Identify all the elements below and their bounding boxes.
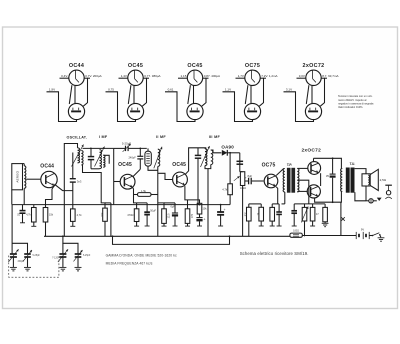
thermistor top wire: [304, 204, 306, 208]
ground battery: [378, 238, 385, 241]
svg-text:OSCILLAT.: OSCILLAT.: [67, 135, 88, 139]
svg-text:5-25pF: 5-25pF: [33, 255, 41, 257]
oscillator top wire to I MF: [83, 147, 114, 149]
svg-text:OC45: OC45: [128, 63, 143, 69]
oscillator coil L3: [81, 151, 83, 166]
resistor R-1k OC75 emitter: [270, 204, 275, 221]
R bias top wire: [33, 205, 35, 208]
svg-text:12,5: 12,5: [168, 213, 171, 218]
volume pot wiper arrow: [234, 176, 240, 181]
svg-text:OC75: OC75: [245, 63, 260, 69]
transistor OC75 label: [262, 162, 276, 168]
oscillator tuning arrow: [72, 145, 84, 167]
I MF secondary coil: [103, 155, 105, 167]
volume pot top wire: [240, 171, 243, 173]
unit 1 collector-side wire: [83, 78, 87, 106]
I MF bottom wire: [91, 168, 100, 170]
volume pot label: [240, 187, 246, 190]
R-4.7k bottom tick: [70, 221, 75, 226]
II MF primary bottom wire: [148, 166, 158, 170]
jack chassis triangle: [377, 198, 382, 201]
unit 1 left voltage label: [61, 74, 68, 78]
variable capacitor CV1: [8, 249, 18, 262]
R-1.5k right wire: [151, 194, 158, 196]
svg-text:0,87. 400µA: 0,87. 400µA: [204, 74, 220, 78]
R-out2 ground: [322, 222, 329, 227]
wire II MF to OC45b base: [158, 173, 173, 179]
III MF padding capacitor: [195, 148, 201, 205]
CT2 ground: [75, 257, 82, 271]
unit 2 left lead: [119, 77, 128, 79]
I MF tuning arrow: [95, 147, 105, 167]
svg-text:Schema elettrico ricevitore SM: Schema elettrico ricevitore SM/19.: [240, 251, 309, 256]
resistor R-470b (OC45b emitter): [185, 209, 190, 224]
resistor R-12k label: [168, 213, 171, 218]
resistor R-470 (OC45a emitter): [134, 209, 139, 222]
CT1 ground: [24, 257, 31, 271]
volume pot bottom wire: [242, 186, 244, 237]
speaker bottom wire: [365, 186, 367, 201]
svg-text:MEDIA FREQUENZA 467 kc/s: MEDIA FREQUENZA 467 kc/s: [106, 262, 153, 266]
transistor OC44: [41, 171, 57, 187]
unit 5 emitter lead wire: [284, 92, 314, 122]
svg-text:1,7V: 1,7V: [238, 74, 244, 78]
resistor R-1.5k horizontal: [138, 193, 152, 197]
T.U. core: [346, 168, 355, 193]
capacitor C-50uF plus sign: [204, 218, 206, 222]
unit 1 right voltage label: [85, 74, 101, 78]
oscillator gang wire: [63, 236, 78, 253]
II MF can stub: [147, 148, 149, 151]
unit 3 package lead left: [188, 85, 191, 104]
unit 4 package lead middle: [250, 86, 252, 104]
capacitor C-32uF: [330, 158, 336, 202]
svg-text:T.P.: T.P.: [287, 163, 293, 167]
svg-text:240pF: 240pF: [128, 156, 136, 160]
rail inline resistor label: [293, 230, 299, 233]
capacitor 240pF: [137, 148, 143, 169]
svg-text:5-25pF: 5-25pF: [83, 255, 91, 257]
negative rail: [113, 236, 230, 244]
speaker impedance label: [380, 178, 387, 182]
III MF primary top stub: [204, 148, 206, 149]
unit 3 package bottom-view circle: [187, 103, 203, 119]
svg-text:1,4V: 1,4V: [121, 74, 127, 78]
svg-text:470Ω: 470Ω: [127, 213, 133, 217]
RF filter capacitor: [237, 161, 244, 164]
node dot collector rail: [332, 157, 334, 159]
resistor R-10kb label: [203, 208, 208, 211]
svg-text:4,7k: 4,7k: [77, 213, 83, 217]
svg-text:T.U.: T.U.: [350, 162, 356, 166]
OC72 lower collector wire: [315, 192, 342, 202]
thermistor NTC: [301, 207, 308, 223]
volume potentiometer: [240, 172, 244, 186]
unit 2 OC45 symbol circle: [128, 70, 143, 85]
unit 1 emitter voltage label: [49, 88, 55, 92]
svg-text:OC45: OC45: [118, 162, 132, 168]
antenna wire down: [11, 190, 13, 254]
unit 4 emitter voltage label: [225, 88, 231, 92]
svg-text:0,61: 0,61: [168, 88, 174, 92]
CT1 label: [33, 255, 41, 257]
transistor pinout unit OC44 label: [69, 63, 84, 69]
svg-text:1,15: 1,15: [181, 74, 187, 78]
supply drop wire: [340, 202, 342, 235]
svg-text:+: +: [245, 175, 247, 179]
wire antenna to OC44 base: [26, 178, 41, 180]
T.U. secondary bottom wire: [355, 192, 366, 201]
svg-text:OC44: OC44: [69, 63, 84, 69]
OC44 emitter wire: [46, 186, 55, 208]
svg-text:4,7k: 4,7k: [222, 187, 228, 191]
transistor pinout unit 2xOC72 label: [303, 63, 325, 69]
T.P. primary bottom wire: [282, 192, 285, 204]
detector output wire: [239, 153, 241, 172]
I MF primary coil: [100, 150, 102, 169]
unit 5 emitter voltage label: [286, 88, 292, 92]
svg-text:1,5k: 1,5k: [141, 189, 147, 193]
transistors 2xOC72 label: [301, 148, 321, 154]
unit 3 emitter lead wire: [165, 92, 195, 122]
unit 4 package lead left: [245, 85, 248, 104]
svg-text:2xOC72: 2xOC72: [303, 63, 325, 69]
unit 1 package lead left: [69, 85, 72, 104]
T.U. secondary top wire: [355, 169, 366, 174]
T.P. secondary top wire: [297, 167, 308, 169]
svg-text:7,2V. 1,2mA: 7,2V. 1,2mA: [261, 74, 277, 78]
antenna label AEREO: [15, 170, 19, 182]
svg-text:0,4V.: 0,4V.: [61, 74, 68, 78]
CV2 ground: [59, 257, 66, 271]
capacitor C-3n3: [70, 179, 76, 182]
transistor OC45 (second IF) label: [172, 162, 186, 168]
label II MF: [156, 135, 166, 139]
transistor OC45 second IF: [173, 172, 188, 187]
transistor OC45 first IF: [120, 174, 135, 189]
transistor OC44 label: [40, 163, 54, 169]
svg-text:3n3: 3n3: [77, 180, 82, 184]
R-820 bottom: [248, 221, 250, 236]
svg-text:2xOC72: 2xOC72: [301, 148, 321, 154]
svg-text:3,0V: 3,0V: [299, 74, 305, 78]
diode OA90 label: [221, 145, 234, 150]
R-1k2 top wire: [260, 204, 262, 207]
variable capacitor CV1 link wire: [12, 243, 27, 253]
svg-text:II MF: II MF: [156, 135, 166, 139]
III MF secondary top wire: [211, 150, 222, 153]
III MF tuning arrow: [201, 146, 210, 167]
svg-text:9V: 9V: [361, 227, 364, 231]
speaker: [362, 169, 378, 190]
unit 3 emitter voltage label: [168, 88, 174, 92]
unit 4 right lead: [260, 77, 266, 79]
resistor R-base-bias OC44: [32, 208, 37, 223]
unit 3 package lead middle: [193, 86, 195, 104]
trimmer CT1: [23, 250, 32, 261]
caption schema: [240, 251, 309, 256]
CV1 ground: [10, 257, 17, 271]
node dot rail left: [112, 235, 114, 237]
svg-text:+: +: [204, 218, 206, 222]
svg-text:8,7. 93,7mA: 8,7. 93,7mA: [322, 74, 338, 78]
svg-text:820: 820: [245, 212, 248, 217]
resistor R-470 label: [127, 213, 133, 217]
svg-text:6μF: 6μF: [171, 206, 176, 209]
capacitor 50uF label: [150, 209, 156, 212]
OC45b emitter wire: [185, 186, 200, 203]
unit 3 OC45 symbol circle: [187, 70, 202, 85]
unit 2 package lead middle: [133, 86, 135, 104]
resistor R-AGC label: [222, 187, 228, 191]
unit 5 package lead middle: [311, 86, 313, 104]
CT2 label: [83, 255, 91, 257]
svg-text:100Ω: 100Ω: [293, 230, 299, 233]
transformer T.P. label: [287, 163, 293, 167]
capacitor C-6uF electrolytic: [172, 203, 178, 226]
unit 5 package lead left: [306, 85, 309, 104]
OC45b emitter branch: [187, 200, 189, 209]
unit 5 left lead: [297, 77, 306, 79]
T.P. secondary bottom wire: [297, 190, 308, 192]
neutralizing trimmer 5-25pF label: [122, 141, 131, 145]
R-out1 top wire: [312, 204, 314, 208]
transistor OC72 lower: [307, 185, 320, 198]
capacitor 50uF bottom: [145, 215, 150, 226]
collector rail wire: [314, 158, 342, 168]
R-15k top wire: [45, 205, 47, 208]
unit 5 right voltage label: [322, 74, 338, 78]
svg-text:8μF: 8μF: [247, 174, 252, 178]
resistor R-10k (OC45a bias): [103, 208, 108, 221]
capacitor C-25uF AGC: [20, 205, 26, 223]
svg-text:2,5Ω: 2,5Ω: [380, 178, 387, 182]
resistor R-470b label: [191, 213, 194, 218]
oscillator secondary return wire: [83, 165, 106, 208]
R bias bottom tick: [31, 222, 36, 226]
caption waveband line 2: [106, 262, 153, 266]
R-AGC bottom wire: [229, 195, 231, 205]
resistor R-10k label: [100, 212, 104, 217]
capacitor C-8uF plus: [245, 175, 247, 179]
unit 4 collector-side wire: [259, 78, 263, 106]
resistor R-4.7k osc label: [77, 213, 83, 217]
label I MF: [99, 135, 108, 139]
C-6uF top wire: [164, 202, 175, 204]
label OSCILLAT.: [67, 135, 88, 139]
top wire trimmer row: [114, 147, 147, 149]
OC45a collector wire: [133, 169, 140, 176]
svg-text:negativo in assenza di segnale: negativo in assenza di segnale.: [338, 101, 374, 105]
svg-text:4,7k: 4,7k: [26, 213, 31, 216]
unit 1 left lead: [60, 77, 69, 79]
unit 3 right voltage label: [204, 74, 220, 78]
T.P. core: [287, 168, 295, 193]
II MF primary coil can: [145, 151, 151, 166]
svg-text:metro 20kΩ/V. rispetto al: metro 20kΩ/V. rispetto al: [338, 98, 367, 102]
T.P. primary coil: [283, 169, 285, 193]
svg-text:III MF: III MF: [209, 135, 221, 139]
svg-text:50μF: 50μF: [150, 209, 156, 212]
unit 2 right lead: [143, 77, 149, 79]
rail inline resistor: [290, 233, 302, 237]
II MF tuning arrow: [154, 147, 163, 168]
unit 3 left lead: [178, 77, 187, 79]
resistor R-out1: [310, 207, 315, 221]
R-1k2 bottom: [259, 221, 264, 226]
resistor R-15k OC44 emitter: [43, 208, 48, 223]
unit 1 emitter lead wire: [47, 92, 77, 122]
svg-text:0,7V. 200µA: 0,7V. 200µA: [85, 74, 101, 78]
note text block: [338, 94, 374, 109]
battery label 9V: [361, 227, 364, 231]
capacitor C-6uF label: [171, 206, 176, 209]
capacitor C-50uF decoupling: [217, 205, 224, 226]
unit 5 collector-side wire: [320, 78, 324, 106]
svg-text:+: +: [224, 208, 226, 212]
resistor R-base-bias label: [26, 213, 31, 216]
CV2 label: [52, 258, 59, 260]
capacitor C-8uF label: [247, 174, 252, 178]
svg-text:1,9V: 1,9V: [49, 88, 55, 92]
svg-text:7-120: 7-120: [52, 258, 59, 260]
R-12k bottom: [162, 223, 167, 226]
capacitor 50uF (OC45a bypass): [144, 203, 150, 215]
oscillator coil L2: [78, 148, 80, 163]
OC45a emitter wire: [133, 187, 148, 203]
svg-text:3,1V: 3,1V: [286, 88, 292, 92]
resistor R-15k label: [49, 213, 54, 216]
svg-text:0,75: 0,75: [108, 88, 114, 92]
resistor R-4.7k osc: [71, 209, 76, 222]
svg-text:10k: 10k: [100, 212, 104, 217]
CV1 label: [18, 261, 25, 263]
capacitor C-3n3 wire: [72, 153, 74, 179]
svg-text:AEREO: AEREO: [15, 170, 19, 182]
unit 1 right lead: [84, 77, 90, 79]
unit 2 emitter voltage label: [108, 88, 114, 92]
OC75 emitter wire: [276, 187, 278, 204]
jack connector circle: [366, 199, 377, 203]
transistor pinout unit OC45 label: [128, 63, 143, 69]
I MF padding capacitor: [88, 148, 94, 168]
R-470 bottom wire: [134, 222, 139, 227]
node dot collector/cap: [139, 148, 141, 150]
unit 1 package bottom-view circle: [68, 103, 84, 119]
OC75 collector wire: [276, 168, 284, 175]
resistor R-AGC 4.7k: [228, 153, 233, 195]
T.P. secondary coil: [297, 169, 299, 193]
III MF primary return wire: [205, 166, 208, 237]
unit 3 left voltage label: [181, 74, 187, 78]
capacitor C-32uF label: [326, 174, 330, 178]
ferrite antenna rod: [12, 164, 23, 190]
capacitor C-8uF coupling: [245, 178, 264, 185]
R-15k bottom wire: [45, 222, 47, 236]
switch to ground wire: [380, 235, 381, 238]
variable capacitor CV2: [58, 249, 68, 262]
resistor R-1k2 bias: [259, 207, 264, 221]
unit 3 collector-side wire: [202, 78, 206, 106]
unit 2 emitter lead wire: [106, 92, 136, 122]
diode OA90: [222, 150, 240, 156]
unit 2 left voltage label: [121, 74, 127, 78]
resistor R-1k2 label: [257, 212, 260, 215]
node dot decoupling: [220, 204, 222, 206]
III MF secondary coil: [211, 150, 213, 165]
resistor R-out1 label: [316, 213, 319, 216]
trimmer capacitor 5-25pF: [123, 144, 131, 152]
unit 2 collector-side wire: [142, 78, 146, 106]
svg-text:OC45: OC45: [187, 63, 202, 69]
battery B1: [356, 232, 369, 239]
unit 4 left lead: [236, 77, 245, 79]
unit 1 OC44 symbol circle: [69, 70, 84, 85]
T.P. center tap wire: [297, 180, 309, 204]
OC44 collector wire: [54, 184, 72, 190]
antenna coil L1: [23, 164, 26, 189]
T.U. primary coil: [341, 169, 343, 192]
trimmer CT2: [74, 250, 83, 261]
node dot lower rail: [332, 201, 334, 203]
svg-text:GAMMA D'ONDA: ONDE MEDIE 520-1: GAMMA D'ONDA: ONDE MEDIE 520-1620 kc: [106, 254, 177, 258]
node dot rail right: [229, 235, 231, 237]
capacitor 240pF label: [128, 156, 136, 160]
III MF secondary bottom wire: [208, 165, 211, 169]
R-10k bottom wire: [104, 221, 106, 236]
unit 2 right voltage label: [144, 74, 160, 78]
R-12k top wire: [158, 203, 164, 209]
resistor R-out2: [323, 207, 328, 221]
resistor R-1.5k label: [141, 189, 147, 193]
wire OC45a base bias vertical: [110, 203, 112, 236]
transistor OC75: [264, 174, 278, 188]
capacitor C-50uF decoupling label: [224, 208, 226, 212]
unit 3 right lead: [203, 77, 209, 79]
I MF secondary tap wire: [104, 155, 110, 164]
wire 3n3 to collector node: [72, 182, 74, 209]
bias divider wire: [249, 203, 261, 205]
unit 1 package lead middle: [74, 86, 76, 104]
node dot osc/IMF: [90, 148, 92, 150]
unit 4 right voltage label: [261, 74, 277, 78]
supply rail right: [302, 235, 356, 237]
III MF primary coil: [205, 149, 207, 166]
label III MF: [209, 135, 221, 139]
bias cluster top wire: [294, 203, 325, 205]
OC45a base feed wire: [113, 148, 115, 204]
wire AGC short link: [105, 202, 111, 204]
transistor pinout unit OC75 label: [245, 63, 260, 69]
svg-text:Tensioni misurate con un volt-: Tensioni misurate con un volt-: [338, 94, 372, 98]
R-out1 bottom: [310, 221, 315, 226]
resistor R-12k (OC45b): [162, 209, 167, 224]
unit 5 package bottom-view circle: [305, 103, 321, 119]
OC45a base tap: [114, 181, 121, 183]
unit 2 package bottom-view circle: [127, 103, 143, 119]
svg-text:I MF: I MF: [99, 135, 108, 139]
svg-text:470: 470: [191, 213, 194, 218]
OC72 emitter join wire: [320, 173, 322, 186]
resistor R-10kb: [197, 203, 202, 214]
R-10k top wire: [104, 205, 106, 209]
svg-text:Valori indicativi ±10%.: Valori indicativi ±10%.: [338, 105, 363, 109]
capacitor C-50uF (OC45b): [196, 214, 202, 226]
node dot detector: [229, 152, 231, 154]
OC75 emitter RC top wire: [272, 203, 279, 205]
svg-text:OA90: OA90: [221, 145, 234, 150]
svg-text:OC75: OC75: [262, 162, 276, 168]
